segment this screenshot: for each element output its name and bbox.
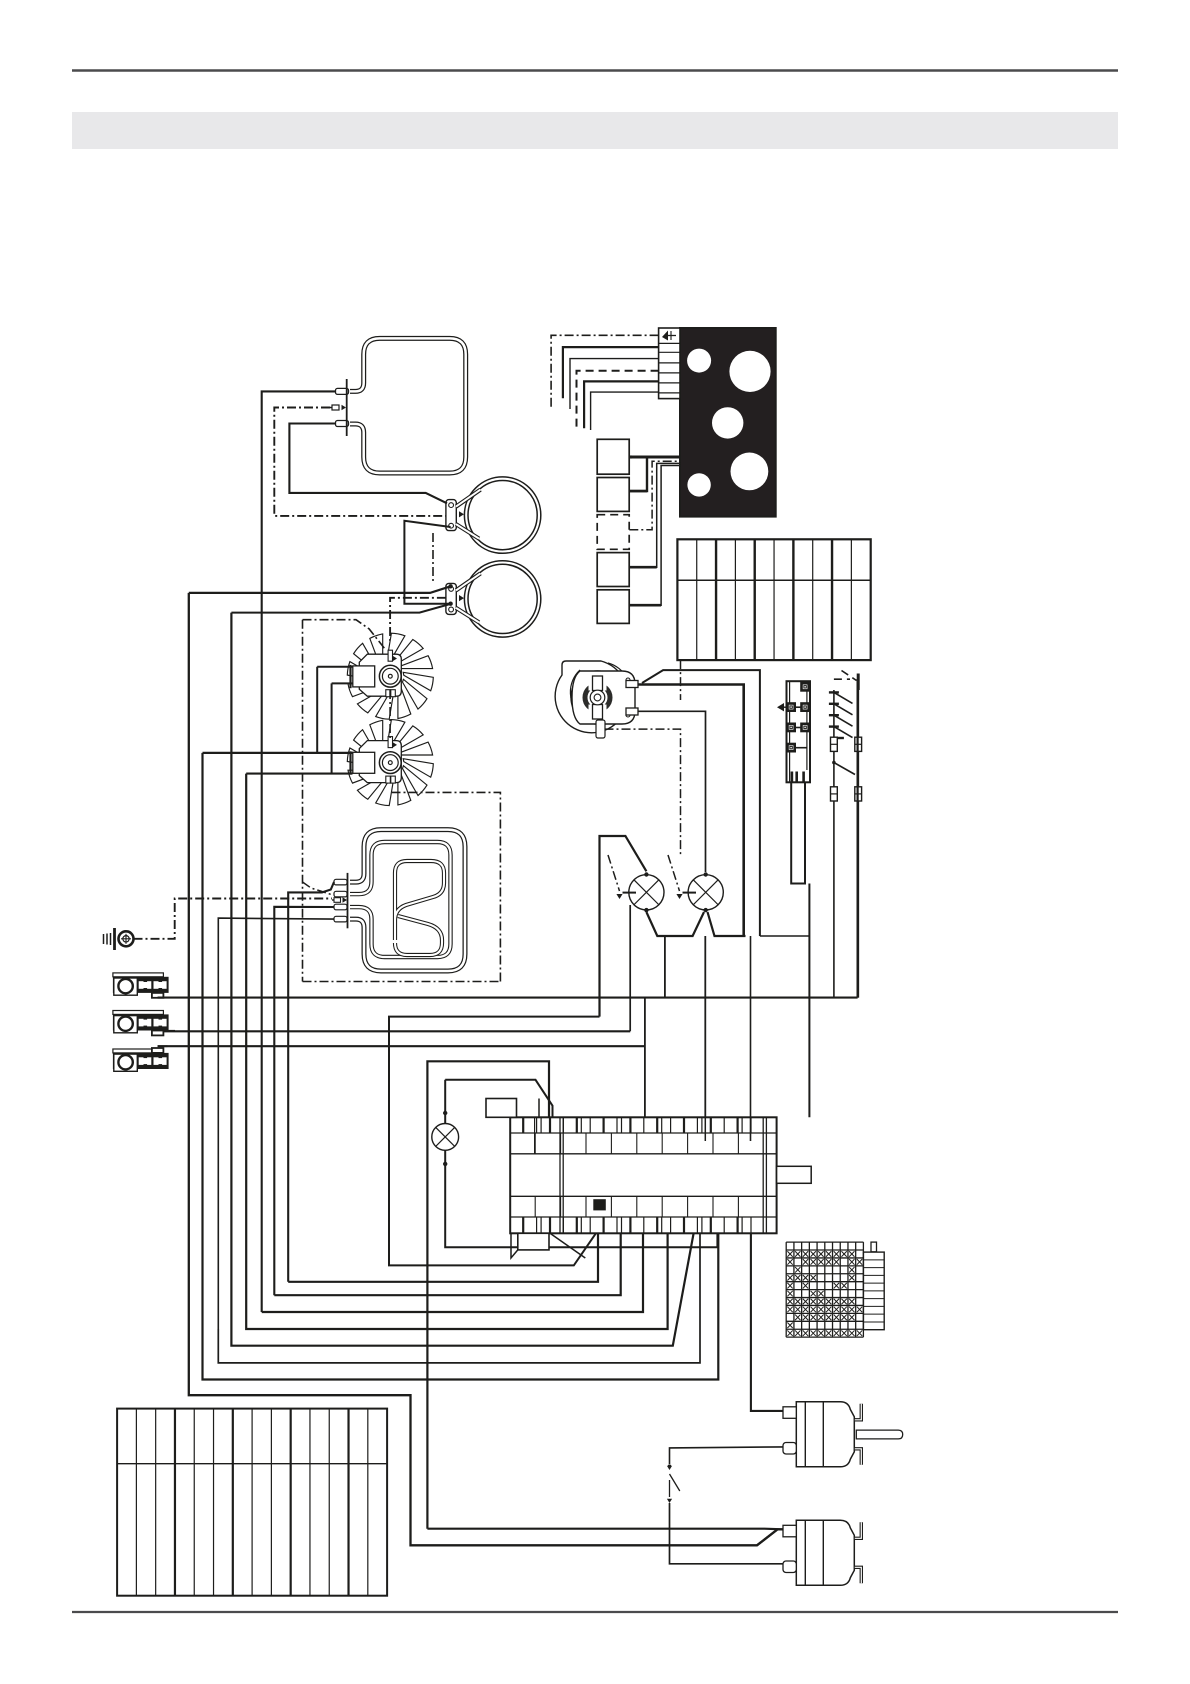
energy regulator S1 (597, 439, 629, 474)
earth E2 arrow (332, 899, 342, 901)
wire E2-t1 (288, 882, 334, 1282)
A2 bottom box (518, 1233, 549, 1250)
wire grill-t1 left drop (262, 391, 336, 1312)
panel lamp H3 (432, 1124, 459, 1151)
junction R2a (448, 584, 452, 588)
hotplate ring R1 (464, 477, 540, 553)
oven fan M1 (403, 679, 428, 709)
wire grill-t2 earth (274, 408, 446, 516)
programmer timer A2 (510, 1117, 776, 1233)
relay A1 arrow (780, 706, 787, 708)
earth H2 (668, 855, 680, 891)
hob feed wire 2 (563, 347, 659, 398)
wire R1 to R2 link (404, 521, 450, 604)
wire H1 drop (664, 936, 666, 998)
earth dash fan1-fan2 (389, 690, 391, 738)
thermal cutout chain F1 (833, 690, 835, 998)
hob terminal strip X1 (659, 328, 680, 399)
terminal E2-3 (334, 904, 347, 910)
wire bus 246 (246, 774, 667, 1329)
wire bus 262 (262, 1233, 643, 1312)
wire lamp chain down (445, 1080, 717, 1248)
earth stud to E2 (134, 899, 333, 939)
terminal E1-1 (336, 388, 349, 394)
terminal bar E2 (347, 873, 349, 928)
heating element E1 grill loop (350, 338, 466, 473)
wire blower earth (605, 729, 681, 855)
wire lamp2 block drop (704, 936, 706, 1117)
relay bottom loop (791, 782, 805, 883)
wire switch down (670, 1503, 784, 1564)
wire module2 lead (163, 1030, 630, 1032)
fan M2 earth arrow (392, 742, 397, 748)
mains terminal block X5 (117, 1409, 387, 1596)
wire E2-t4 (218, 918, 334, 1329)
hob feed wire 5 (584, 381, 659, 428)
wire blower diag (642, 670, 760, 936)
wire module1 lead (158, 997, 858, 999)
A2 top box (486, 1099, 517, 1118)
energy regulator S2 (597, 478, 629, 512)
oven element E2 serpentine top (395, 861, 444, 940)
blower terminal t2 (626, 708, 638, 715)
wire fan1 feed a (317, 666, 352, 668)
burner circle small 1 (687, 349, 711, 373)
hotplate ring R2 (464, 561, 540, 637)
lamp H3 bottom dot (443, 1162, 447, 1166)
relay module A1 (787, 681, 811, 782)
chassis frame vertical (302, 620, 304, 982)
cooling blower M3 (555, 661, 628, 733)
wire bus 276 (274, 1233, 620, 1295)
oven lamp H1 (629, 875, 664, 910)
wire grill-t3 to R1 (289, 424, 447, 504)
earth lead E1 arrow (330, 407, 341, 409)
hob earth symbol (662, 331, 668, 341)
wire blower t1 (638, 685, 744, 937)
wire S5 chain (629, 466, 681, 606)
suppressor module X2 (113, 973, 163, 977)
oven element E2 serpentine bottom (395, 916, 442, 955)
oven lamp H2 (688, 875, 723, 910)
lamp H3 top dot (443, 1111, 447, 1115)
wire fan2 feed a (203, 752, 353, 754)
wire S2 chain (629, 458, 647, 491)
suppressor module X4 (113, 1049, 163, 1053)
A2 bottom diag wire (550, 1233, 585, 1258)
wire bus 217 (218, 1233, 700, 1363)
thermostat B1 (796, 1402, 854, 1467)
program matrix card (786, 1241, 863, 1243)
energy regulator S4 (597, 553, 629, 587)
earth drop block (680, 660, 682, 700)
wire n inner (445, 1080, 552, 1118)
junction R2b (448, 602, 452, 606)
module stub2 (163, 1030, 175, 1032)
wire S2 lead thick (629, 490, 647, 493)
fan M1 earth arrow (392, 655, 397, 661)
wire T drop 645 (644, 998, 646, 1118)
wire thermo2 upper (427, 1528, 783, 1531)
hob feed wire 1 (551, 335, 659, 407)
module stub3 (158, 1045, 168, 1047)
suppressor module X3 (113, 1011, 163, 1015)
earth H1 (608, 855, 620, 891)
hob glass panel (680, 328, 776, 517)
wire fan1a drop (316, 667, 318, 753)
wire right drop 809 (808, 884, 810, 1118)
wire blower t2 (638, 711, 706, 872)
wire thermo2 diag (757, 1529, 778, 1545)
wire fan1 feed b (332, 682, 353, 684)
wire A2 entries (704, 1117, 706, 1141)
hob feed wire 3 (570, 359, 659, 409)
program matrix tab (871, 1242, 877, 1252)
wire module1 up (856, 679, 858, 998)
burner circle small 2 (687, 473, 710, 496)
lamp H2 dots (704, 872, 708, 876)
thermostat B2 (796, 1520, 854, 1585)
terminal bar E1 (346, 379, 348, 436)
wire module3 lead (158, 1045, 645, 1047)
oven fan M2 (403, 766, 428, 796)
wire S5 lead thick (629, 604, 661, 607)
chassis frame left (303, 620, 386, 649)
wire bus 389 (389, 1017, 600, 1266)
terminal E2-4 (334, 916, 347, 922)
energy regulator S5 (597, 590, 629, 624)
wire fan1b drop (331, 683, 333, 773)
terminal E1-2 (336, 421, 349, 427)
switch blade S6 (668, 1464, 671, 1467)
blower terminal t1 (626, 681, 638, 688)
wire y936 right (760, 935, 810, 937)
burner circle medium (712, 407, 743, 438)
wire bus 290 (288, 1233, 598, 1282)
wire S4 chain (629, 463, 681, 567)
burner circle large 1 (729, 351, 770, 392)
wire S3 earth chain (629, 461, 681, 530)
wire bus1 to R2 (189, 586, 451, 593)
wire H2 bottom (708, 912, 746, 936)
terminal E2-1 (334, 879, 347, 885)
program matrix extension (863, 1252, 884, 1330)
burner circle large 2 (731, 453, 769, 491)
wire H1 bottom (646, 912, 704, 936)
module stub1 (158, 997, 168, 999)
wire B1 lower (670, 1447, 784, 1464)
wire S1 to hob (629, 456, 681, 459)
hotplate R2 arrow (459, 595, 464, 601)
energy regulator S3 (597, 515, 629, 550)
hob feed wire 4 (577, 371, 659, 429)
terminal E2-2 (334, 891, 347, 897)
wire H1 top (600, 836, 647, 1017)
wire earth R1R2 link (432, 533, 434, 581)
wire S4 lead thick (629, 566, 656, 569)
wire n outer (427, 1061, 549, 1528)
page bottom rule (72, 1611, 1118, 1613)
earth stud PE (113, 928, 116, 950)
wire A2 bottom exit 751 (751, 1233, 784, 1411)
A2 shaft (777, 1166, 812, 1183)
wire module2 stub up (629, 905, 631, 1031)
chassis frame bottom (303, 981, 501, 983)
wire bus 189 (189, 593, 784, 1545)
wire bus 203 (203, 753, 719, 1380)
wire bus 231 (231, 613, 693, 1346)
oven element E2 inner loop (350, 842, 451, 957)
lamp H1 dots (644, 872, 648, 876)
wire bus2 to R2 (231, 604, 450, 613)
hob feed wire 6 (591, 392, 659, 430)
chassis frame right (392, 792, 500, 981)
oven element E2 outer loop (350, 830, 465, 971)
page top rule (72, 69, 1118, 71)
hotplate R1 arrow (459, 511, 464, 517)
wire E2-t3 (274, 907, 334, 1295)
header gray band (72, 112, 1118, 149)
wire earth R2 to fan1 (390, 598, 446, 644)
terminal bank PL1 (677, 539, 870, 660)
wire A2 top entry 539 (538, 1099, 540, 1118)
wire fan2 feed b (246, 773, 352, 775)
A2 black square (593, 1199, 606, 1210)
earth chassis drop (303, 882, 335, 894)
